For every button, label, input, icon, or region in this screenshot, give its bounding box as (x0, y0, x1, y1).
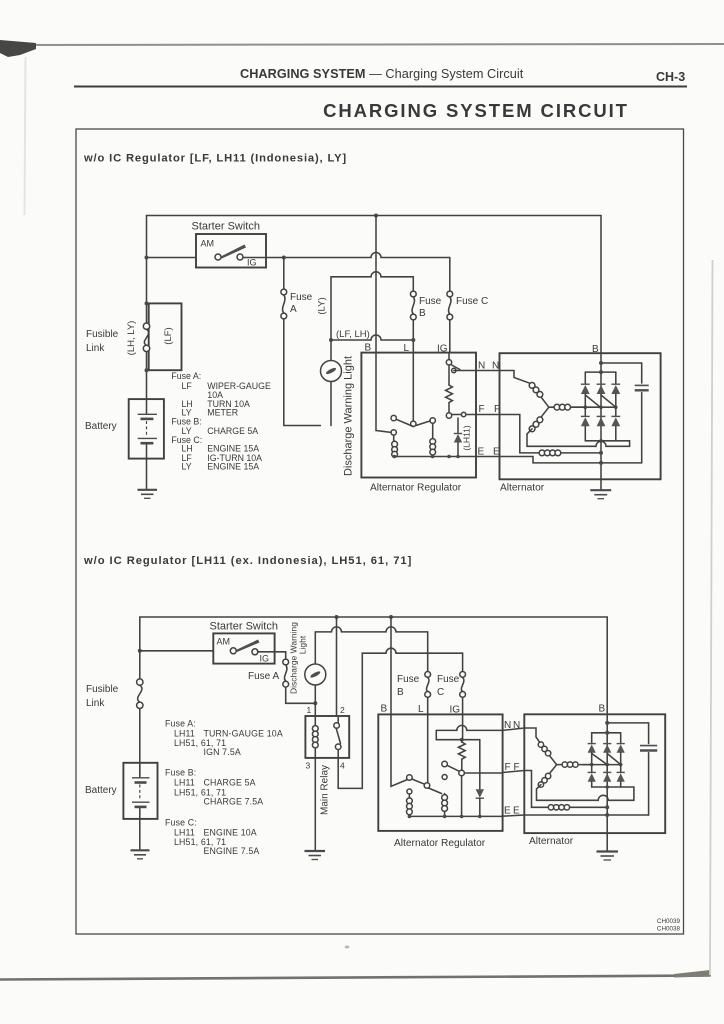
svg-text:Starter Switch: Starter Switch (210, 621, 278, 633)
svg-text:AM: AM (201, 239, 215, 249)
svg-text:F: F (514, 762, 520, 773)
svg-text:F: F (479, 404, 485, 415)
svg-text:N: N (504, 720, 511, 731)
svg-text:3: 3 (306, 761, 311, 771)
svg-text:LH11: LH11 (174, 728, 195, 738)
svg-text:F: F (505, 762, 511, 773)
svg-text:Alternator: Alternator (500, 483, 545, 494)
svg-text:Fuse: Fuse (437, 674, 460, 685)
svg-text:Fusible: Fusible (86, 329, 119, 340)
svg-text:B: B (592, 344, 599, 355)
svg-text:B: B (419, 308, 426, 319)
svg-text:4: 4 (340, 761, 345, 771)
svg-text:E: E (478, 447, 485, 458)
svg-text:CH-3: CH-3 (656, 70, 685, 84)
svg-text:Fusible: Fusible (86, 684, 119, 695)
svg-text:Link: Link (86, 343, 105, 354)
svg-text:1: 1 (307, 705, 312, 715)
svg-text:Alternator Regulator: Alternator Regulator (370, 483, 462, 494)
svg-text:AM: AM (217, 637, 231, 647)
svg-text:TURN-GAUGE 10A: TURN-GAUGE 10A (204, 728, 283, 738)
svg-text:w/o IC Regulator [LF, LH11 (In: w/o IC Regulator [LF, LH11 (Indonesia), … (83, 153, 347, 165)
svg-text:IGN 7.5A: IGN 7.5A (204, 747, 241, 757)
svg-text:Discharge Warning Light: Discharge Warning Light (343, 356, 355, 476)
svg-text:(LY): (LY) (317, 297, 328, 314)
svg-text:CHARGE 5A: CHARGE 5A (207, 426, 258, 436)
svg-text:Fuse: Fuse (397, 674, 420, 685)
svg-text:E: E (504, 806, 511, 817)
svg-text:LH11: LH11 (174, 828, 195, 838)
svg-text:IG: IG (450, 705, 461, 716)
svg-text:Fuse A:: Fuse A: (165, 719, 196, 729)
svg-text:N: N (513, 720, 520, 731)
svg-text:CHARGE 5A: CHARGE 5A (204, 778, 256, 788)
svg-text:CHARGING SYSTEM — Charging Sys: CHARGING SYSTEM — Charging System Circui… (240, 67, 524, 81)
svg-text:2: 2 (340, 705, 345, 715)
svg-text:Fuse C:: Fuse C: (165, 818, 197, 828)
svg-text:Light: Light (298, 635, 308, 654)
svg-text:B: B (365, 343, 372, 354)
svg-text:Fuse: Fuse (419, 296, 442, 307)
svg-text:Fuse: Fuse (290, 292, 313, 303)
svg-text:B: B (381, 704, 388, 715)
svg-text:ENGINE 15A: ENGINE 15A (207, 462, 259, 472)
svg-text:B: B (397, 687, 404, 698)
svg-text:Fuse C: Fuse C (456, 296, 488, 307)
svg-text:N: N (478, 361, 485, 372)
svg-text:Fuse B:: Fuse B: (165, 768, 196, 778)
svg-text:CHARGING SYSTEM CIRCUIT: CHARGING SYSTEM CIRCUIT (323, 100, 629, 121)
svg-text:CHARGE 7.5A: CHARGE 7.5A (204, 796, 264, 806)
svg-text:LF: LF (182, 381, 193, 391)
svg-text:IG: IG (247, 258, 257, 268)
svg-text:ENGINE 7.5A: ENGINE 7.5A (204, 846, 260, 856)
svg-text:N: N (492, 361, 499, 372)
svg-text:IG: IG (260, 654, 270, 664)
svg-text:(LF, LH): (LF, LH) (336, 329, 370, 340)
svg-text:L: L (418, 704, 424, 715)
svg-text:(LH, LY): (LH, LY) (126, 321, 137, 356)
svg-text:Alternator Regulator: Alternator Regulator (394, 838, 486, 849)
svg-text:Battery: Battery (85, 421, 117, 432)
svg-text:w/o IC Regulator [LH11 (ex. In: w/o IC Regulator [LH11 (ex. Indonesia), … (83, 555, 412, 567)
svg-text:METER: METER (207, 408, 238, 418)
svg-text:(LH11): (LH11) (462, 425, 472, 451)
svg-text:Link: Link (86, 698, 105, 709)
svg-text:Fuse A: Fuse A (248, 671, 279, 682)
svg-text:LY: LY (182, 462, 192, 472)
svg-text:LH11: LH11 (174, 778, 195, 788)
svg-text:ENGINE 10A: ENGINE 10A (204, 828, 257, 838)
svg-text:Discharge Warning: Discharge Warning (289, 622, 299, 694)
svg-text:CH0039: CH0039 (657, 918, 681, 925)
svg-text:Alternator: Alternator (529, 836, 574, 847)
svg-text:Starter Switch: Starter Switch (192, 221, 260, 233)
svg-text:CH0038: CH0038 (657, 926, 681, 933)
svg-text:C: C (437, 687, 444, 698)
svg-text:A: A (290, 304, 297, 315)
svg-text:Fuse A:: Fuse A: (171, 371, 201, 381)
svg-text:(LF): (LF) (163, 327, 174, 344)
svg-text:E: E (513, 806, 520, 817)
svg-text:B: B (599, 704, 606, 715)
svg-text:Battery: Battery (85, 785, 117, 796)
svg-text:IG: IG (437, 344, 448, 355)
svg-text:L: L (404, 343, 410, 354)
svg-text:Main Relay: Main Relay (320, 765, 331, 815)
